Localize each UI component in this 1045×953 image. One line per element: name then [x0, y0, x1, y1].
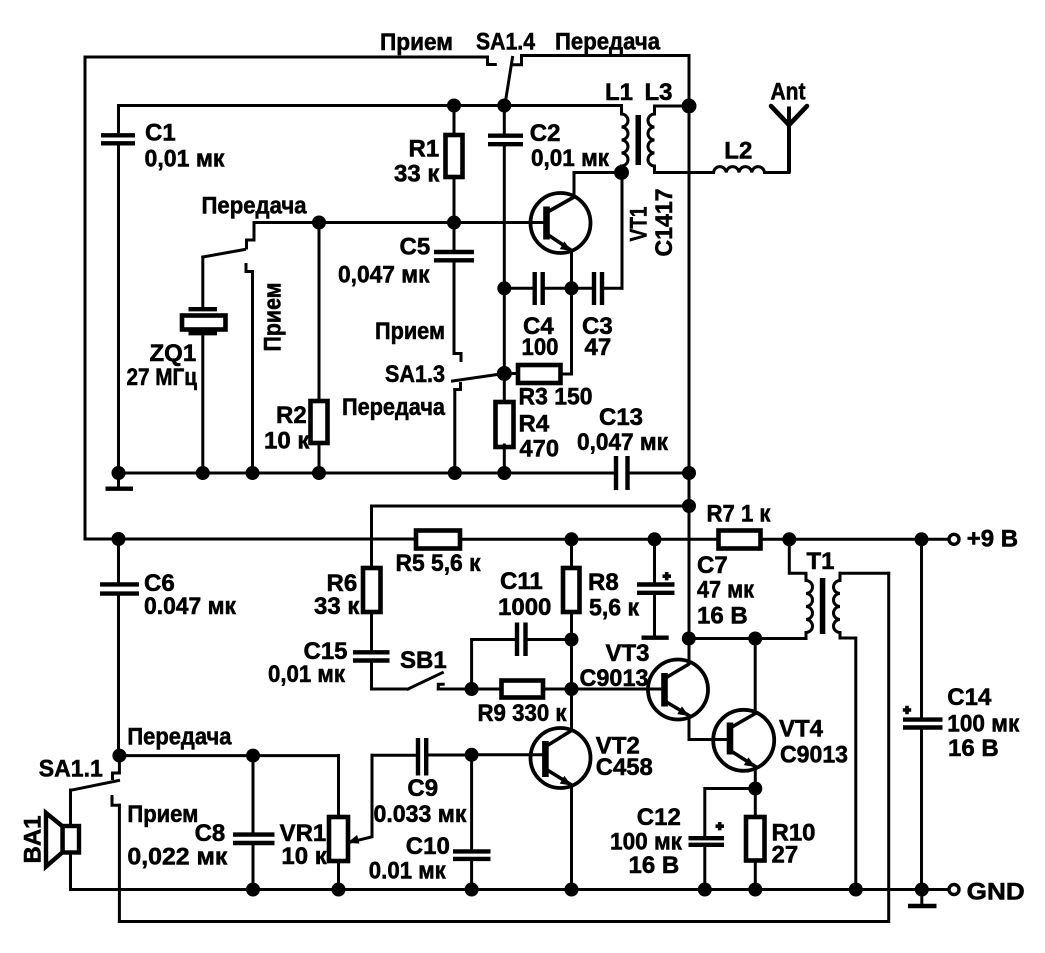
antenna Ant	[771, 106, 807, 173]
svg-text:Прием: Прием	[380, 29, 453, 56]
node: +9V rail C7 top	[648, 532, 662, 546]
svg-text:C1: C1	[145, 120, 176, 147]
svg-text:ZQ1: ZQ1	[150, 340, 197, 367]
svg-text:R1: R1	[409, 136, 440, 163]
wire: right frame x=689 down to VT3 collector	[688, 56, 691, 664]
svg-text:100: 100	[522, 334, 559, 361]
svg-text:BA1: BA1	[20, 816, 47, 864]
resistor R7	[719, 531, 761, 549]
node: GND bus C8	[246, 883, 260, 897]
capacitor C12 (electrolytic)	[689, 789, 756, 890]
svg-text:GND: GND	[967, 879, 1025, 906]
svg-text:0.033 мк: 0.033 мк	[374, 801, 468, 828]
capacitor C4	[504, 272, 571, 305]
svg-text:VT4: VT4	[779, 716, 824, 743]
svg-text:0,01 мк: 0,01 мк	[268, 661, 346, 688]
svg-text:SA1.4: SA1.4	[476, 29, 536, 56]
node: +9V rail R8 top	[565, 532, 579, 546]
capacitor C14 (electrolytic)	[903, 539, 943, 889]
inductor L3	[648, 106, 713, 173]
svg-text:0,022 мк: 0,022 мк	[127, 844, 228, 871]
node: L3 top / right frame	[682, 99, 697, 114]
svg-text:Прием: Прием	[375, 318, 445, 345]
resistor R4	[496, 374, 514, 474]
inductor L1	[622, 106, 629, 173]
capacitor C1	[101, 106, 135, 474]
transistor VT2	[531, 689, 591, 890]
node: SA1.1 Передача contact	[112, 749, 126, 763]
capacitor C11	[517, 623, 572, 657]
wire: R6 column vertical (506 to R6 top)	[370, 506, 373, 568]
svg-text:Прием: Прием	[260, 283, 287, 352]
wire: +9V rail between R5 and R7	[460, 538, 719, 541]
svg-text:0,047 мк: 0,047 мк	[577, 429, 669, 456]
svg-text:R3 150: R3 150	[519, 384, 593, 411]
node: +9V rail R7 right / T1 primary	[782, 532, 796, 546]
capacitor C9	[372, 738, 472, 776]
wire: L3 top to right frame	[655, 105, 690, 108]
transistor VT1	[531, 173, 622, 375]
svg-text:Передача: Передача	[127, 724, 232, 751]
wire: T1 secondary top long return (down and left to SA1.1)	[119, 573, 888, 921]
wire: VT3 base from R9/R8 node	[572, 688, 663, 691]
svg-text:C11: C11	[500, 568, 543, 595]
svg-text:27 МГц: 27 МГц	[127, 364, 198, 391]
resistor R5	[416, 531, 460, 549]
wire: outer frame top (left part to SA1.4)	[85, 56, 488, 59]
svg-text:0.01 мк: 0.01 мк	[369, 858, 447, 885]
node: SA1.3 / R3 / R4	[497, 366, 512, 381]
switch SA1.2 (Передача/Прием near ZQ1)	[203, 223, 254, 474]
capacitor C6	[100, 539, 139, 756]
svg-text:SA1.1: SA1.1	[39, 756, 103, 783]
svg-text:27: 27	[772, 842, 799, 869]
node: VT3 collector / T1 primary bottom	[682, 632, 696, 646]
transistor VT3	[648, 660, 727, 740]
node: GND bus C12	[698, 883, 712, 897]
potentiometer VR1	[329, 755, 372, 889]
node: gnd bus right frame	[682, 466, 696, 480]
svg-text:C7: C7	[697, 552, 728, 579]
switch SB1	[408, 673, 472, 689]
node: base line R2	[312, 216, 326, 230]
svg-text:L3: L3	[645, 79, 673, 106]
svg-text:T1: T1	[807, 548, 835, 575]
wire: SB1 node up to C11	[472, 640, 515, 690]
svg-text:C9: C9	[407, 775, 438, 802]
wire: link rail y=506 from right frame to R6 column	[372, 505, 690, 508]
wire: upper rail y=105.5 (C1 corner to L1 top)	[119, 104, 622, 107]
node: gnd bus ZQ1	[196, 466, 210, 480]
wire: VT2 base from C9 node	[472, 753, 543, 756]
capacitor C10	[453, 755, 491, 890]
svg-text:16 В: 16 В	[629, 852, 680, 879]
terminal GND	[949, 885, 959, 895]
ground (at GND terminal)	[908, 890, 937, 907]
svg-text:R7 1 к: R7 1 к	[707, 501, 772, 528]
svg-text:Прием: Прием	[127, 801, 198, 828]
svg-text:SA1.3: SA1.3	[385, 361, 445, 388]
svg-text:Ant: Ant	[771, 79, 806, 106]
resistor R9	[472, 681, 572, 698]
svg-text:SB1: SB1	[400, 647, 447, 674]
svg-text:C9013: C9013	[780, 742, 848, 769]
node: base line R1 bottom	[447, 216, 461, 230]
speaker BA1	[46, 813, 79, 867]
wire: top-right rail from SA1.4 to right frame	[522, 54, 690, 57]
node: +9V rail C6	[112, 532, 126, 546]
wire: ground bus right of C13	[630, 472, 689, 475]
resistor R6	[363, 568, 381, 650]
svg-text:10 к: 10 к	[281, 843, 327, 870]
svg-text:R4: R4	[519, 411, 550, 438]
svg-text:33 к: 33 к	[394, 161, 440, 188]
wire: T1 primary bottom rail y=638.5	[689, 637, 804, 640]
svg-text:L2: L2	[724, 138, 752, 165]
svg-text:10 к: 10 к	[264, 428, 310, 455]
resistor R1	[446, 106, 463, 223]
resistor R2	[311, 223, 328, 474]
wire: VT1 base line y=222.5	[254, 221, 544, 224]
node: C8 top	[246, 749, 260, 763]
wire: +9V rail right of R7 to terminal	[761, 538, 950, 541]
node: gnd bus SA1.3 contact	[448, 466, 462, 480]
switch SA1.3	[453, 263, 505, 474]
transistor VT4	[713, 639, 774, 789]
capacitor C2	[488, 106, 523, 145]
node: GND bus T1 secondary	[849, 883, 863, 897]
svg-text:470: 470	[520, 436, 560, 463]
svg-text:C5: C5	[400, 234, 431, 261]
node: GND bus VT2 emitter	[565, 883, 579, 897]
svg-text:16 В: 16 В	[697, 603, 748, 630]
wire: +9V rail y=539 (left of R5)	[85, 538, 416, 541]
wire: Передача line y=755.6	[119, 754, 338, 757]
svg-text:0,01 мк: 0,01 мк	[531, 145, 610, 172]
node: VT4 emitter / R10 / C12	[748, 782, 762, 796]
svg-text:R2: R2	[276, 402, 307, 429]
svg-text:C13: C13	[599, 404, 643, 431]
svg-text:1000: 1000	[498, 594, 551, 621]
inductor L2	[714, 167, 790, 173]
wire: top-section ground bus y=473	[119, 472, 614, 475]
svg-text:VT1: VT1	[626, 207, 653, 242]
svg-text:C12: C12	[637, 804, 681, 831]
switch SA1.4	[488, 56, 522, 106]
node: right frame / link rail	[682, 499, 696, 513]
node: gnd bus Прием contact	[246, 466, 260, 480]
svg-text:16 В: 16 В	[948, 735, 999, 762]
svg-text:Передача: Передача	[342, 394, 446, 421]
svg-text:0,01 мк: 0,01 мк	[145, 145, 226, 172]
node: VT4 collector / T1 primary bottom	[748, 632, 762, 646]
svg-text:0,047 мк: 0,047 мк	[338, 262, 430, 289]
svg-text:VT3: VT3	[606, 640, 650, 667]
node: GND bus VR1	[332, 883, 346, 897]
svg-text:L1: L1	[605, 79, 633, 106]
svg-text:5,6 к: 5,6 к	[589, 595, 640, 622]
node: L1 bottom / VT1 collector	[614, 165, 629, 180]
capacitor C3	[572, 173, 623, 306]
svg-text:C9013: C9013	[580, 665, 649, 692]
svg-text:C2: C2	[530, 120, 561, 147]
ground (top section)	[106, 473, 134, 489]
svg-text:R5 5,6 к: R5 5,6 к	[396, 550, 482, 577]
transformer core L1/L3	[636, 115, 642, 165]
svg-text:33 к: 33 к	[314, 593, 360, 620]
node: C4 left	[497, 281, 511, 295]
capacitor C15	[353, 652, 408, 689]
svg-text:100 мк: 100 мк	[947, 711, 1020, 738]
node: SA1.4/C2 junction	[497, 99, 511, 113]
svg-text:Передача: Передача	[555, 29, 661, 56]
node: SB1 / R9 left	[465, 682, 479, 696]
node: GND bus R10	[748, 883, 762, 897]
svg-text:47 мк: 47 мк	[697, 577, 755, 604]
svg-text:C14: C14	[947, 684, 992, 711]
node: gnd bus R4	[497, 466, 511, 480]
node: VT1 emitter / C4-C3	[565, 281, 579, 295]
switch SA1.1	[71, 756, 120, 922]
capacitor C5	[434, 223, 474, 261]
svg-text:C458: C458	[596, 754, 653, 781]
wire: C2 bottom down to SA1.3 node	[503, 147, 506, 374]
svg-text:Передача: Передача	[202, 193, 308, 220]
node: GND bus C10	[465, 883, 479, 897]
svg-text:0.047 мк: 0.047 мк	[144, 593, 237, 620]
node: +9V rail C14 top	[915, 532, 929, 546]
svg-text:R9 330 к: R9 330 к	[478, 700, 568, 727]
resistor R10	[746, 789, 765, 890]
wire: GND bus y=889.5	[71, 888, 950, 891]
capacitor C13	[616, 456, 628, 490]
resistor R8	[563, 539, 580, 689]
node: R9 right / VT2 collector / VT3 base	[565, 682, 579, 696]
node: GND bus C14	[915, 883, 929, 897]
node: gnd bus R2	[312, 466, 326, 480]
capacitor C8	[233, 756, 275, 890]
svg-text:+9 В: +9 В	[967, 526, 1018, 553]
transformer T1	[789, 539, 888, 889]
node: C11 right on R8 column	[565, 633, 579, 647]
terminal +9 B	[949, 534, 959, 544]
wire: outer frame left side	[84, 57, 87, 539]
svg-text:C10: C10	[406, 833, 450, 860]
resistor R3	[504, 365, 571, 383]
svg-text:C1417: C1417	[651, 189, 678, 257]
node: gnd bus C1	[112, 466, 126, 480]
node: R1 top junction	[447, 99, 461, 113]
capacitor C7 (electrolytic)	[637, 539, 675, 637]
crystal ZQ1	[182, 259, 226, 474]
svg-text:47: 47	[585, 334, 612, 361]
node: C9 right / VT2 base / C10	[465, 748, 479, 762]
svg-text:R8: R8	[588, 569, 619, 596]
